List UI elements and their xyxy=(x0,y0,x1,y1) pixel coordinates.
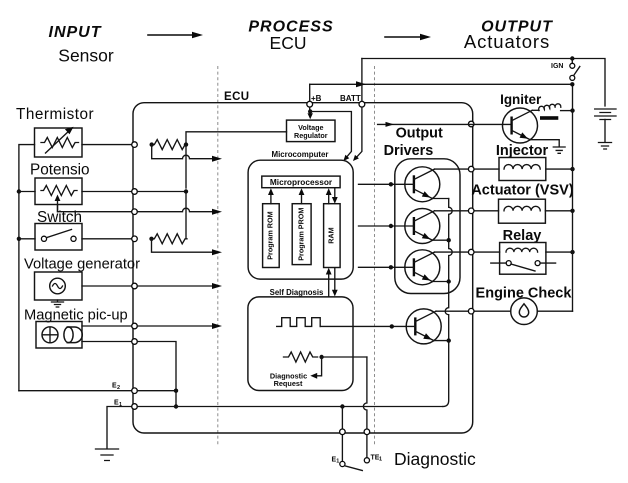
jumper hint line xyxy=(345,466,363,471)
magnetic pick-up rotor symbol xyxy=(42,327,58,343)
thermistor arrow stroke xyxy=(46,130,71,153)
sine wave glyph xyxy=(53,284,63,289)
igniter coil L1 xyxy=(539,104,561,111)
svg-text:Diagnostic: Diagnostic xyxy=(394,449,476,469)
wire magnetic pick-up bottom to ECU xyxy=(82,341,135,343)
ignition feed line to +B xyxy=(310,83,573,85)
potensio wiper signal wire with hop xyxy=(137,208,218,211)
igniter transistor Q5 xyxy=(503,108,538,143)
igniter emitter to ground xyxy=(530,140,559,147)
svg-text:Regulator: Regulator xyxy=(294,131,328,140)
igniter coil to power bus xyxy=(561,110,573,112)
voltage generator ground xyxy=(52,300,64,307)
svg-text:Actuators: Actuators xyxy=(464,31,550,52)
node dot E1/terminal xyxy=(340,404,344,408)
engine check lamp xyxy=(511,298,538,325)
node injector exit xyxy=(468,166,474,172)
junction Q2 base xyxy=(389,224,393,228)
junction injector / bus xyxy=(570,167,574,171)
chassis ground symbol bottom left xyxy=(96,449,119,461)
node magnetic entry 1 xyxy=(132,323,138,329)
svg-text:Igniter: Igniter xyxy=(500,92,542,107)
svg-text:INPUT: INPUT xyxy=(49,24,102,41)
relay switch contacts xyxy=(506,261,511,266)
ECU right edge circles xyxy=(468,121,474,127)
BATT entry circle xyxy=(359,101,365,107)
RAM to self-diagnosis arrow xyxy=(334,268,336,292)
switch signal wire xyxy=(152,239,219,252)
potensio supply wire xyxy=(137,191,186,193)
svg-text:Drivers: Drivers xyxy=(384,143,434,159)
base wire Q4 from self diagnosis xyxy=(320,325,415,327)
svg-text:1: 1 xyxy=(336,459,339,465)
node switch entry xyxy=(132,236,138,242)
wire potensio left xyxy=(19,191,35,193)
injector box xyxy=(499,158,546,181)
pull-up resistor R1 (thermistor) xyxy=(152,140,187,150)
emitter bus dots xyxy=(447,238,451,242)
svg-text:Request: Request xyxy=(274,379,303,388)
top rail from BATT to battery xyxy=(362,59,605,107)
thermistor variable resistor symbol xyxy=(41,138,79,148)
RAM to microprocessor arrows xyxy=(328,193,330,204)
node wiper entry xyxy=(132,209,138,215)
svg-text:Thermistor: Thermistor xyxy=(16,106,94,123)
IGN switch stub xyxy=(571,59,573,64)
svg-text:RAM: RAM xyxy=(327,227,336,243)
E2 ground wire xyxy=(19,390,135,392)
arrowhead +B to microcomputer xyxy=(343,155,349,161)
arrow into voltage regulator xyxy=(309,112,311,115)
svg-text:ECU: ECU xyxy=(270,33,307,53)
node potensio entry xyxy=(132,189,138,195)
igniter ground xyxy=(553,147,565,153)
thermistor box B1 xyxy=(35,128,83,157)
TE1 check terminal xyxy=(364,458,369,463)
square wave symbol xyxy=(277,318,321,327)
header arrow process->output xyxy=(385,36,424,38)
injector coil L2 xyxy=(504,165,540,170)
PROM to microprocessor arrow xyxy=(301,193,303,204)
svg-text:Microcomputer: Microcomputer xyxy=(272,150,329,159)
node dot on E1 line xyxy=(174,404,178,408)
pick-up rotor cross xyxy=(43,328,57,342)
junction igniter coil / bus xyxy=(570,108,574,112)
junction dot switch xyxy=(17,237,21,241)
node dot R2 left xyxy=(149,237,153,241)
emitter wire Q4 xyxy=(434,340,449,342)
left sensor ground bus xyxy=(19,145,35,391)
arrowhead switch signal xyxy=(212,249,222,255)
wire switch left xyxy=(19,238,35,240)
svg-text:BATT: BATT xyxy=(340,94,361,103)
transistor Q2 xyxy=(405,209,440,244)
node dot diagnostic xyxy=(319,355,323,359)
wire potensio to ECU xyxy=(82,191,135,193)
emitter ground bus with hops xyxy=(443,199,453,407)
battery B+ xyxy=(595,109,616,120)
svg-text:Injector: Injector xyxy=(496,143,549,159)
microprocessor box xyxy=(262,176,340,188)
thermistor signal wire with hop xyxy=(152,145,218,159)
pull-up resistor R2 (switch) xyxy=(152,234,187,244)
relay switch stubs xyxy=(491,262,556,264)
voltage regulator box U1 xyxy=(287,120,336,142)
magnetic pick-up signal wire xyxy=(137,325,218,327)
junction relay / bus xyxy=(570,250,574,254)
microcomputer box U2 xyxy=(248,160,353,279)
transistor Q1 xyxy=(405,167,440,202)
battery to ground wire xyxy=(604,120,606,143)
relay box xyxy=(500,243,546,275)
bottom edge circle TE1 xyxy=(364,429,370,435)
node dot R1 right on 5V bus xyxy=(184,142,188,146)
lamp filament droplet xyxy=(519,304,528,317)
collector wire Q2 to VSV row xyxy=(435,210,499,212)
node lamp exit xyxy=(468,308,474,314)
rail junction dot xyxy=(570,56,574,60)
emitter wire Q1 xyxy=(432,198,448,200)
voltage generator symbol (sine source) xyxy=(50,278,66,294)
IGN switch contacts xyxy=(570,63,575,68)
magnetic pick-up return wire xyxy=(137,342,176,407)
potensio box B2 xyxy=(35,178,82,205)
arrowhead diagnostic request xyxy=(310,373,317,379)
E1 check terminal xyxy=(340,461,345,466)
relay coil L4 xyxy=(506,248,538,252)
base wire Q1 xyxy=(359,183,414,185)
junction Q4 emitter xyxy=(447,338,451,342)
program PROM box xyxy=(292,204,311,265)
node dot potensio on 5V bus xyxy=(184,189,188,193)
power feed bus xyxy=(572,84,574,311)
svg-text:Potensio: Potensio xyxy=(30,162,90,179)
potensio wiper arrow xyxy=(57,198,59,212)
microprocessor to RAM arrow xyxy=(334,188,336,199)
arrowhead on feed line xyxy=(356,81,366,87)
wire magnetic pick-up top to ECU xyxy=(82,325,135,327)
arrowhead thermistor signal xyxy=(212,156,222,162)
E1 ground wire outside xyxy=(107,407,135,449)
program ROM box xyxy=(263,204,280,268)
Vreg 5V rail to pull-up bus xyxy=(186,132,287,144)
RAM to self-diagnosis arrows xyxy=(328,272,330,296)
VSV box xyxy=(499,199,546,223)
5V distribution bus xyxy=(185,145,187,188)
switch symbol xyxy=(41,236,46,241)
svg-text:2: 2 xyxy=(117,385,120,391)
igniter coil core bar xyxy=(540,116,558,120)
igniter collector wire to coil xyxy=(532,109,539,111)
svg-text:1: 1 xyxy=(379,457,382,463)
junction Q3 emitter xyxy=(447,279,451,283)
+B branch to microcomputer xyxy=(310,112,351,160)
wire switch to ECU xyxy=(82,238,135,240)
base wire Q3 xyxy=(359,266,414,268)
+B riser above edge xyxy=(309,84,311,101)
svg-text:Actuator (VSV): Actuator (VSV) xyxy=(471,183,573,199)
+B entry circle xyxy=(307,101,313,107)
svg-text:IGN: IGN xyxy=(551,63,563,70)
node E2 entry xyxy=(132,388,138,394)
switch contact right xyxy=(71,236,76,241)
header arrow input->process xyxy=(148,34,196,36)
igniter base wire from ECU xyxy=(378,123,512,125)
E2 wire inside xyxy=(137,390,176,392)
wire thermistor to ECU xyxy=(82,144,135,146)
wire potensio wiper to ECU xyxy=(58,205,135,212)
VSV to power bus xyxy=(545,210,572,212)
arrowhead BATT to microcomputer xyxy=(353,155,359,161)
relay lever xyxy=(511,264,535,271)
junction Q1 base xyxy=(389,182,393,186)
+B drop into ECU xyxy=(309,107,311,111)
arrowhead generator signal xyxy=(212,283,222,289)
svg-text:Program PROM: Program PROM xyxy=(296,208,305,261)
junction Q4 base xyxy=(390,324,394,328)
node VSV exit xyxy=(468,208,474,214)
diagnostic request arrow xyxy=(315,357,322,376)
emitter wire Q2 xyxy=(432,239,448,241)
E1 terminal drop line xyxy=(341,407,343,462)
node magnetic entry 2 xyxy=(132,339,138,345)
svg-text:Output: Output xyxy=(396,125,443,141)
BATT drop to microcomputer xyxy=(355,107,362,159)
node voltage generator entry xyxy=(132,283,138,289)
svg-text:Microprocessor: Microprocessor xyxy=(270,177,333,187)
RAM box xyxy=(324,204,341,268)
injector to power bus xyxy=(546,168,573,170)
svg-text:Sensor: Sensor xyxy=(58,46,114,66)
E1 ground line across ECU xyxy=(137,406,442,408)
svg-text:Voltage generator: Voltage generator xyxy=(24,257,140,273)
arrowhead wiper signal xyxy=(212,209,222,215)
junction Q3 base xyxy=(389,265,393,269)
voltage generator signal wire xyxy=(137,285,218,287)
collector wire Q4 to lamp row xyxy=(436,310,511,312)
transistor Q4 xyxy=(406,309,441,344)
output drivers box U4 xyxy=(395,159,460,294)
magnetic pick-up box B5 xyxy=(36,322,82,349)
5V bus lower section xyxy=(185,193,187,239)
wire to TE1 terminal xyxy=(322,356,367,358)
svg-text:Program ROM: Program ROM xyxy=(266,211,275,259)
junction VSV / bus xyxy=(570,209,574,213)
battery ground xyxy=(599,143,612,150)
svg-text:Self Diagnosis: Self Diagnosis xyxy=(270,288,324,297)
divider input/process xyxy=(217,66,219,446)
bottom edge circle E1 xyxy=(340,429,346,435)
switch box B3 xyxy=(35,224,82,251)
IGN to feed dot xyxy=(570,82,574,86)
svg-text:1: 1 xyxy=(119,402,122,408)
switch lever xyxy=(47,230,72,238)
lamp to power bus xyxy=(537,310,572,312)
arrowhead magnetic signal xyxy=(212,323,222,329)
node dot E2 xyxy=(174,389,178,393)
node dot +B split xyxy=(308,109,312,113)
pick-up coil core ellipse xyxy=(64,327,73,343)
node relay exit xyxy=(468,249,474,255)
ECU edge entry circles left xyxy=(132,142,138,148)
self diagnosis box U3 xyxy=(248,297,353,391)
svg-text:ECU: ECU xyxy=(224,91,249,103)
divider process/output xyxy=(374,66,376,446)
IGN switch lever xyxy=(574,67,580,76)
svg-text:Engine Check: Engine Check xyxy=(476,286,573,302)
node E1 entry xyxy=(132,404,138,410)
ECU main box xyxy=(133,103,473,433)
ROM to microprocessor arrow xyxy=(270,193,272,204)
collector wire Q3 to relay row xyxy=(435,251,500,253)
transistor Q3 xyxy=(405,250,440,285)
BATT riser to top rail xyxy=(361,59,363,102)
base wire Q2 xyxy=(359,225,414,227)
magnetic pick-up coil symbol xyxy=(67,327,83,343)
arrowhead igniter base xyxy=(386,122,395,127)
voltage generator box B4 xyxy=(35,272,83,300)
emitter wire Q3 xyxy=(432,281,448,283)
relay contact right xyxy=(535,261,540,266)
diagnostic request resistor R3 xyxy=(284,352,318,362)
TE1 drop line with hop over E1 xyxy=(363,357,366,458)
wire voltage generator to ECU xyxy=(82,285,135,287)
VSV coil L3 xyxy=(504,206,540,211)
relay to power bus xyxy=(546,251,573,253)
node dot R1 left xyxy=(150,142,154,146)
potensio resistor symbol xyxy=(41,186,77,196)
IGN contact lower xyxy=(570,75,575,80)
junction dot potensio xyxy=(17,189,21,193)
collector wire Q1 to injector row xyxy=(435,168,500,170)
svg-text:+B: +B xyxy=(311,94,322,103)
